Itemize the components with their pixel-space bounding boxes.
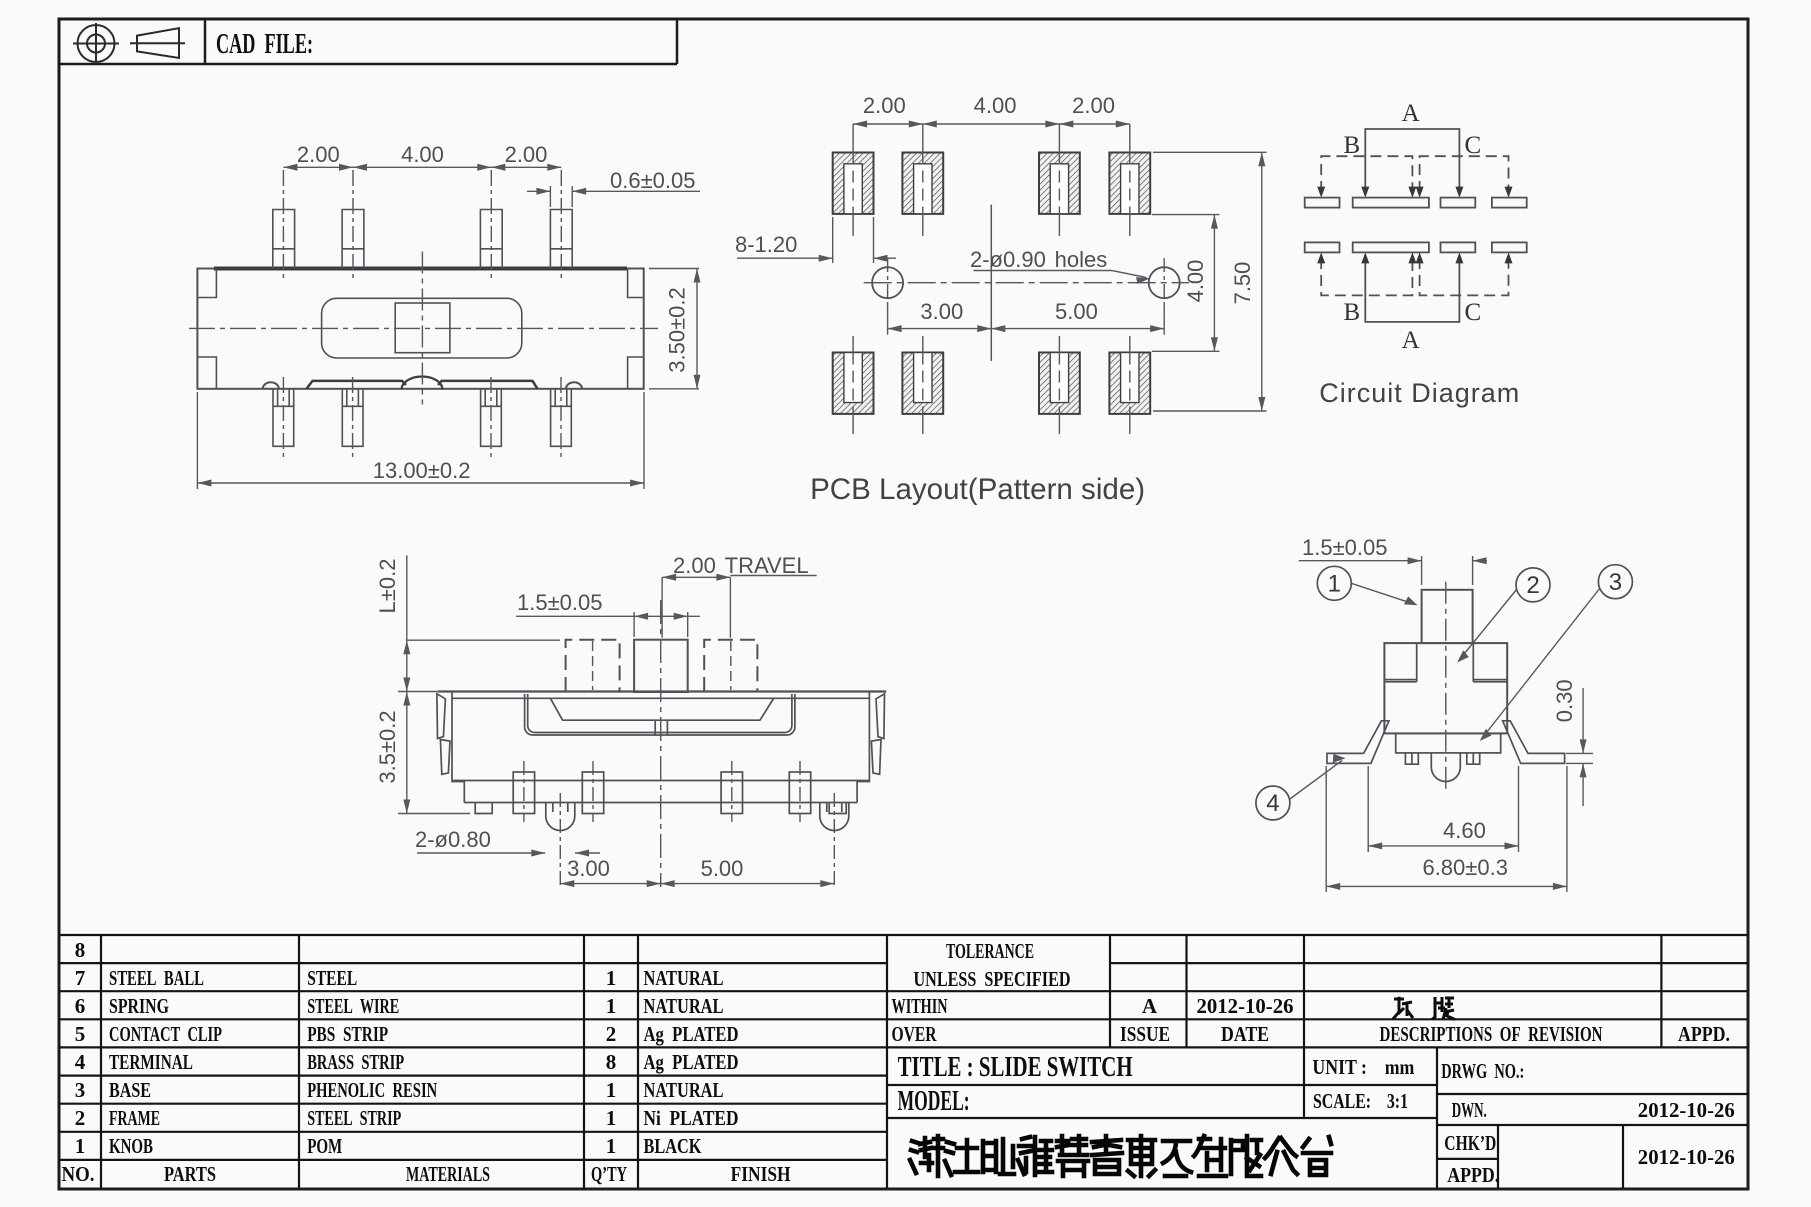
central axis vertical line: [990, 205, 992, 361]
arrows onto top pads: [1317, 187, 1325, 198]
company char 8: [1163, 1141, 1191, 1176]
pad col 4 axis: [1129, 124, 1131, 236]
svg-text:Circuit Diagram: Circuit Diagram: [1319, 378, 1520, 408]
round leg right dome: [820, 803, 849, 831]
arrows 4.00: [1211, 215, 1218, 229]
terminal pad bottom 4: [1492, 242, 1527, 252]
company char 6: [1092, 1136, 1122, 1174]
svg-text:2-ø0.80: 2-ø0.80: [415, 827, 491, 852]
terminal rail top line: [452, 780, 869, 782]
frame ear bottom-left: [440, 740, 450, 775]
round leg right shank: [827, 803, 842, 813]
dim 0.30 line: [1582, 688, 1584, 753]
svg-text:2.00: 2.00: [863, 93, 906, 118]
svg-text:1.5±0.05: 1.5±0.05: [1302, 535, 1387, 560]
svg-text:5: 5: [75, 1022, 86, 1046]
projection symbol: circle with crosshair: [73, 23, 119, 64]
svg-text:Ag PLATED: Ag PLATED: [644, 1022, 739, 1046]
dim 1.5 side underline: [1299, 560, 1422, 562]
round leg right centerline: [833, 793, 835, 888]
dim 3.5 extension bottom: [398, 813, 470, 815]
svg-text:6: 6: [75, 994, 86, 1018]
base terminal bump left: [1405, 753, 1418, 764]
svg-text:3: 3: [75, 1078, 86, 1102]
balloon 4: [1256, 786, 1290, 820]
pcb dim 3.00/5.00 extensions: [887, 306, 889, 335]
arrows dim L: [403, 640, 410, 654]
net A top solid: [1365, 129, 1459, 192]
terminal pad top 4: [1492, 198, 1527, 208]
projection symbol: truncated cone: [130, 28, 185, 58]
svg-text:3: 3: [1609, 569, 1622, 596]
round leg left shank: [553, 803, 568, 813]
bottom blade right: [438, 381, 538, 389]
horizontal centerline: [189, 327, 658, 329]
arrows 8-1.20: [819, 255, 833, 262]
svg-text:CAD FILE:: CAD FILE:: [216, 28, 313, 60]
svg-text:5.00: 5.00: [701, 856, 744, 881]
dim L extension top: [407, 639, 560, 641]
central slot rounded: [322, 298, 522, 358]
round leg left centerline: [559, 793, 561, 888]
parts table header row: [62, 1162, 791, 1186]
travel dim line: [662, 576, 730, 578]
svg-text:WITHIN: WITHIN: [892, 994, 948, 1018]
svg-text:BRASS STRIP: BRASS STRIP: [307, 1050, 404, 1074]
svg-text:4.00: 4.00: [401, 142, 444, 167]
svg-text:POM: POM: [307, 1134, 342, 1158]
pcb dim 8-1.20 extensions: [832, 217, 834, 263]
svg-text:6.80±0.3: 6.80±0.3: [1422, 855, 1507, 880]
svg-text:TOLERANCE: TOLERANCE: [946, 939, 1034, 963]
arrows dim 3.00/5.00 front: [560, 880, 574, 887]
dim 3.5 line: [406, 692, 408, 814]
foot left: [475, 803, 492, 814]
bottom pin 4: [551, 389, 572, 447]
front center axis: [660, 600, 662, 887]
revision note CJK "first edition" char 1: [1393, 997, 1413, 1019]
svg-text:KNOB: KNOB: [109, 1134, 153, 1158]
svg-text:A: A: [1402, 327, 1420, 354]
parts table row NO.5 CONTACT CLIP: [75, 1022, 739, 1046]
balloon 3: [1598, 565, 1632, 599]
side upper block: [1384, 643, 1507, 733]
svg-text:1: 1: [606, 1134, 617, 1158]
svg-text:1.5±0.05: 1.5±0.05: [517, 590, 602, 615]
company char 2: [945, 1140, 978, 1175]
knob ghost left dashed: [566, 640, 620, 692]
arrows dim 6.80: [1326, 883, 1340, 890]
pad top 4: [1109, 153, 1150, 214]
dim 1.5 side extensions: [1421, 556, 1423, 585]
dim 13.00 line: [197, 482, 644, 484]
svg-text:13.00±0.2: 13.00±0.2: [373, 458, 471, 483]
svg-text:Ni PLATED: Ni PLATED: [644, 1106, 739, 1130]
arrows dim 0.80: [531, 850, 545, 857]
cover notch left: [1384, 680, 1416, 682]
pad top 3: [1039, 153, 1080, 214]
svg-text:TITLE : SLIDE SWITCH: TITLE : SLIDE SWITCH: [898, 1051, 1133, 1083]
dim line 2.00/4.00/2.00 top: [283, 166, 561, 168]
terminal pin 1: [513, 772, 534, 814]
dim 3.00/5.00 front line: [560, 883, 834, 885]
svg-text:2-ø0.90 holes: 2-ø0.90 holes: [970, 247, 1107, 272]
arrows onto bottom pads: [1317, 252, 1325, 263]
svg-text:TERMINAL: TERMINAL: [109, 1050, 193, 1074]
dim 1.5 leader left with underline: [516, 615, 634, 617]
knob skirt trapezoid: [550, 698, 773, 720]
svg-text:4.00: 4.00: [974, 93, 1017, 118]
net C bottom dashed: [1420, 258, 1509, 295]
parts table grid: [59, 935, 1748, 1188]
pin 4 centerline: [799, 761, 801, 822]
dim 2-0.80 leader: [417, 852, 545, 854]
round leg left dome: [546, 803, 575, 831]
svg-text:FRAME: FRAME: [109, 1106, 160, 1130]
pcb dim 7.50 extensions: [1153, 151, 1267, 153]
dim 4.60 extensions: [1367, 766, 1369, 852]
svg-text:PCB Layout(Pattern side): PCB Layout(Pattern side): [810, 473, 1145, 506]
leader from 2: [1460, 589, 1517, 659]
svg-text:MATERIALS: MATERIALS: [406, 1162, 490, 1186]
svg-text:A: A: [1402, 100, 1420, 127]
svg-text:8: 8: [75, 938, 86, 962]
arrows dim 4.60: [1368, 842, 1382, 849]
arrows dim 3.5: [403, 692, 410, 706]
bottom pin 2 centerline: [352, 377, 354, 460]
body top edge: [438, 690, 886, 692]
svg-text:1: 1: [75, 1134, 86, 1158]
svg-text:BLACK: BLACK: [644, 1134, 703, 1158]
svg-text:OVER: OVER: [892, 1022, 938, 1046]
svg-text:STEEL STRIP: STEEL STRIP: [307, 1106, 401, 1130]
svg-text:3.5±0.2: 3.5±0.2: [375, 710, 400, 783]
svg-text:PARTS: PARTS: [164, 1162, 216, 1186]
pad bottom 1: [833, 353, 874, 414]
top pin 3: [480, 210, 502, 269]
svg-text:0.30: 0.30: [1552, 679, 1577, 722]
parts table row NO.4 TERMINAL: [75, 1050, 739, 1074]
arrows on 2/4/2 dim: [283, 164, 297, 171]
company char 5: [1057, 1136, 1088, 1176]
pad col 2 axis: [922, 124, 924, 236]
pcb dim line 2/4/2: [853, 123, 1130, 125]
corner notch bottom-left: [197, 357, 216, 389]
svg-text:DATE: DATE: [1221, 1022, 1269, 1046]
bottom center dome: [402, 377, 443, 390]
svg-text:FINISH: FINISH: [731, 1162, 791, 1186]
company char 4: [1018, 1137, 1052, 1175]
top pin 4: [550, 210, 572, 269]
top pin 2: [342, 210, 364, 269]
bracket right gull-wing: [1503, 721, 1565, 764]
dim 6.80 extensions: [1325, 766, 1327, 892]
ghost knob left centerline: [592, 641, 594, 690]
pin 2 centerline: [592, 761, 594, 822]
parts table row NO.2 FRAME: [75, 1106, 739, 1130]
leader 0.90 holes: [974, 271, 1147, 278]
dim 6.80 line: [1326, 885, 1567, 887]
pad bottom 2: [902, 353, 943, 414]
frame ear top-left: [437, 694, 446, 739]
svg-text:STEEL BALL: STEEL BALL: [109, 966, 204, 990]
svg-text:2012-10-26: 2012-10-26: [1638, 1098, 1735, 1122]
hole right vertical centerline: [1163, 258, 1165, 307]
net B top dashed: [1321, 156, 1412, 192]
frame ear top-right: [876, 694, 885, 739]
pcb dim 8-1.20 leaders: [737, 257, 833, 259]
pin 4 centerline: [560, 170, 562, 282]
knob stem pass-through: [655, 720, 667, 735]
body bottom line: [464, 802, 857, 804]
svg-text:4.00: 4.00: [1183, 260, 1208, 303]
bottom pin 2: [342, 389, 363, 447]
bottom pin 1: [273, 389, 294, 447]
arrow 0.90 holes leader: [1136, 277, 1151, 284]
travel text underline: [730, 575, 816, 577]
arrows 3.00/5.00: [888, 325, 902, 332]
arrows travel: [662, 574, 676, 581]
title block: [887, 1047, 1748, 1188]
arrows dim 1.5: [634, 613, 648, 620]
terminal pad top 3: [1441, 198, 1476, 208]
knob square: [395, 303, 450, 353]
pad col 3 axis: [1058, 124, 1060, 236]
bottom pin 3 centerline: [490, 377, 492, 460]
company char 10: [1231, 1136, 1261, 1176]
svg-text:7: 7: [75, 966, 86, 990]
svg-text:1: 1: [606, 966, 617, 990]
svg-text:1: 1: [606, 1078, 617, 1102]
svg-text:SCALE: 3:1: SCALE: 3:1: [1313, 1089, 1408, 1113]
hole left vertical centerline: [887, 258, 889, 307]
svg-text:2.00: 2.00: [505, 142, 548, 167]
svg-text:A: A: [1142, 994, 1158, 1018]
pad col 1 axis: [852, 124, 854, 236]
revision note CJK "first edition" char 2: [1432, 997, 1455, 1020]
arrows on 13.00 dim: [197, 480, 211, 487]
svg-text:2: 2: [75, 1106, 86, 1130]
svg-text:2.00: 2.00: [1072, 93, 1115, 118]
bottom pin 1 centerline: [282, 377, 284, 460]
terminal pad top 1: [1305, 198, 1340, 208]
svg-text:DWN.: DWN.: [1452, 1098, 1487, 1122]
pin 2 centerline: [352, 170, 354, 282]
arrows 7.50: [1258, 152, 1265, 166]
company char 12: [1303, 1137, 1331, 1175]
svg-text:UNLESS SPECIFIED: UNLESS SPECIFIED: [914, 967, 1071, 991]
balloon 2: [1516, 568, 1550, 602]
bottom pin 4 centerline: [560, 377, 562, 460]
dim 3.5 extension left of top: [398, 691, 440, 693]
svg-text:2012-10-26: 2012-10-26: [1638, 1145, 1735, 1169]
bottom edge left bump: [263, 382, 279, 389]
svg-text:4: 4: [1266, 790, 1279, 817]
dim 0.6 extension lines: [549, 186, 551, 207]
pin 1 centerline: [282, 170, 284, 282]
arrows dim 0.30: [1580, 739, 1587, 753]
svg-text:MODEL:: MODEL:: [898, 1086, 970, 1117]
leader from 3: [1483, 588, 1600, 737]
svg-text:STEEL WIRE: STEEL WIRE: [307, 994, 399, 1018]
dim 3.50 line: [696, 269, 698, 389]
svg-text:UNIT : mm: UNIT : mm: [1312, 1055, 1414, 1079]
terminal pin 4: [789, 772, 810, 814]
svg-text:7.50: 7.50: [1230, 262, 1255, 305]
pcb dim 4.00 extensions: [1152, 214, 1220, 216]
pad top 1: [833, 153, 874, 214]
arrows pcb 2/4/2: [853, 121, 867, 128]
company char 9: [1194, 1136, 1226, 1176]
dim 3.50 extension lines: [649, 268, 699, 270]
cover bathtub inner: [528, 694, 792, 733]
svg-text:BASE: BASE: [109, 1078, 151, 1102]
svg-text:5.00: 5.00: [1055, 299, 1098, 324]
leader from 1: [1351, 583, 1413, 603]
svg-text:SPRING: SPRING: [109, 994, 169, 1018]
corner notch top-left: [197, 269, 216, 298]
parts table row NO.3 BASE: [75, 1078, 724, 1102]
bottom pin 3: [481, 389, 502, 447]
svg-text:APPD.: APPD.: [1678, 1022, 1730, 1046]
cover notch right: [1473, 680, 1507, 682]
dim 1.5 line and right leader: [634, 615, 700, 617]
svg-text:Q’TY: Q’TY: [591, 1162, 627, 1186]
dim 13.00 extension lines: [196, 392, 198, 489]
pcb dim 4.00 line: [1213, 215, 1215, 352]
side view centerline: [1445, 582, 1447, 792]
mounting hole left: [872, 267, 903, 298]
svg-text:STEEL: STEEL: [307, 966, 357, 990]
leader arrowheads 1-4: [1404, 596, 1418, 605]
svg-text:PHENOLIC RESIN: PHENOLIC RESIN: [307, 1078, 437, 1102]
svg-text:1: 1: [1328, 571, 1341, 598]
svg-text:0.6±0.05: 0.6±0.05: [610, 168, 695, 193]
knob solid: [634, 640, 688, 692]
knob hidden sides: [1417, 643, 1474, 682]
svg-text:8: 8: [606, 1050, 617, 1074]
tolerance block: [887, 991, 1110, 1019]
travel extension left: [661, 577, 663, 637]
bracket left gull-wing: [1327, 721, 1389, 764]
svg-text:B: B: [1344, 299, 1361, 326]
svg-text:NATURAL: NATURAL: [644, 994, 724, 1018]
cover second line: [452, 697, 869, 699]
top pin 1: [273, 210, 295, 269]
terminal pad bottom 1: [1305, 242, 1340, 252]
pin 3 centerline: [731, 761, 733, 822]
svg-text:4: 4: [75, 1050, 86, 1074]
side round leg: [1431, 753, 1460, 782]
knob ghost right dashed: [704, 640, 757, 692]
svg-text:8-1.20: 8-1.20: [735, 232, 797, 257]
bottom blade left: [307, 381, 407, 389]
terminal pad bottom 3: [1441, 242, 1476, 252]
vertical centerline: [421, 252, 423, 405]
svg-text:2012-10-26: 2012-10-26: [1197, 994, 1294, 1018]
svg-text:APPD.: APPD.: [1447, 1163, 1499, 1187]
corner notch top-right: [628, 269, 644, 298]
parts table row NO.1 KNOB: [75, 1134, 702, 1158]
dim 0.30 extensions: [1566, 752, 1593, 754]
company char 7: [1128, 1136, 1155, 1176]
svg-text:DRWG NO.:: DRWG NO.:: [1441, 1059, 1524, 1083]
svg-text:2.00 TRAVEL: 2.00 TRAVEL: [673, 553, 809, 578]
svg-text:ISSUE: ISSUE: [1120, 1022, 1170, 1046]
terminal pin 2: [582, 772, 603, 814]
company char 1: [910, 1136, 943, 1176]
cover bathtub outer: [525, 694, 795, 735]
svg-text:3.00: 3.00: [567, 856, 610, 881]
svg-text:1: 1: [606, 1106, 617, 1130]
svg-text:3.50±0.2: 3.50±0.2: [665, 287, 690, 372]
frame ear bottom-right: [871, 740, 881, 775]
company char 11: [1265, 1138, 1297, 1174]
dim L line: [406, 555, 408, 691]
terminal pad bottom 2 wide: [1353, 242, 1429, 252]
svg-text:3.00: 3.00: [920, 299, 963, 324]
svg-text:1: 1: [606, 994, 617, 1018]
company char 3: [983, 1139, 1014, 1174]
svg-text:Ag PLATED: Ag PLATED: [644, 1050, 739, 1074]
pad bottom 3: [1039, 353, 1080, 414]
svg-text:C: C: [1464, 132, 1481, 159]
terminal pin 3: [721, 772, 742, 814]
top view body top thick edge: [214, 267, 627, 271]
body left side: [452, 692, 464, 803]
svg-text:L±0.2: L±0.2: [375, 559, 400, 614]
CAD FILE title band: [59, 19, 677, 64]
svg-text:NO.: NO.: [62, 1162, 95, 1186]
svg-text:NATURAL: NATURAL: [644, 1078, 724, 1102]
svg-text:DESCRIPTIONS OF REVISION: DESCRIPTIONS OF REVISION: [1380, 1022, 1603, 1046]
side knob: [1422, 590, 1473, 643]
net C top dashed: [1420, 156, 1509, 192]
leader from 4: [1290, 761, 1342, 800]
pad bottom 4: [1109, 353, 1150, 414]
bottom edge right bump: [566, 382, 582, 389]
parts table row NO.6 SPRING: [75, 994, 724, 1018]
dim 1.5 extensions: [633, 612, 635, 637]
foot right: [829, 803, 846, 814]
pcb dim 3.00/5.00 line: [888, 328, 1165, 330]
dim 1.5 side right leader: [1473, 560, 1487, 562]
parts table row NO.7 STEEL BALL: [75, 966, 724, 990]
svg-text:NATURAL: NATURAL: [644, 966, 724, 990]
arrows on 0.6 dim: [536, 188, 550, 195]
balloon 1: [1317, 566, 1351, 600]
base terminal bump right: [1467, 753, 1480, 764]
svg-text:2: 2: [606, 1022, 617, 1046]
svg-text:B: B: [1344, 132, 1361, 159]
terminal pad top 2 wide: [1353, 198, 1429, 208]
company name fake CJK glyphs 浙江虹穗精密电子有限公司: [910, 1136, 1331, 1176]
net B bottom dashed: [1321, 258, 1412, 295]
svg-text:2.00: 2.00: [297, 142, 340, 167]
corner notch bottom-right: [628, 357, 644, 389]
dim 4.60 line: [1368, 845, 1518, 847]
dim 0.6 leader lines: [527, 190, 550, 192]
svg-text:4.60: 4.60: [1443, 818, 1486, 843]
top view body outline: [197, 269, 643, 389]
side base block: [1396, 733, 1501, 753]
pcb dim 7.50 line: [1261, 152, 1263, 411]
pin 1 centerline: [523, 761, 525, 822]
svg-text:CONTACT CLIP: CONTACT CLIP: [109, 1022, 222, 1046]
travel extension right: [729, 577, 731, 637]
svg-text:C: C: [1464, 299, 1481, 326]
arrows dim 1.5 side: [1408, 557, 1422, 564]
